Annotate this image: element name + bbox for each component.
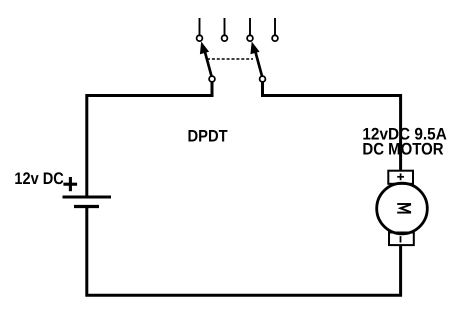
motor M1 top terminal plus mark <box>397 173 404 180</box>
switch S1 throw contact circle 4 <box>272 35 278 41</box>
switch S1 throw contact circle 3 <box>247 35 253 41</box>
switch S1 right arm <box>254 47 262 77</box>
battery B1 positive plate <box>63 196 112 199</box>
switch S1 gang dashed link <box>207 58 253 60</box>
svg-text:DPDT: DPDT <box>188 127 229 146</box>
switch S1 throw terminal stub 3 <box>249 18 251 35</box>
motor M1 top terminal box <box>388 171 413 184</box>
wire: right pole of switch to motor top <box>263 81 401 171</box>
motor M1 body circle <box>377 183 428 234</box>
motor M1 bottom terminal box <box>389 233 414 246</box>
switch S1 right arm arrowhead <box>250 42 259 55</box>
wire: battery bottom, bottom rail, up to motor bottom <box>87 207 401 296</box>
switch S1 throw terminal stub 1 <box>199 18 201 35</box>
battery plus sign <box>63 177 77 191</box>
switch S1 left arm <box>204 47 212 77</box>
motor M1 bottom terminal minus mark (rotated) <box>400 236 402 242</box>
switch S1 pole contact circle left <box>209 76 215 82</box>
switch S1 pole contact circle right <box>260 76 266 82</box>
switch S1 throw contact circle 1 <box>197 35 203 41</box>
svg-text:12v DC: 12v DC <box>14 169 63 188</box>
svg-text:DC MOTOR: DC MOTOR <box>362 139 443 158</box>
battery B1 negative plate <box>74 205 99 208</box>
wire: battery top to left pole of switch <box>87 81 212 197</box>
motor M1 rotated letter M <box>397 204 411 213</box>
switch S1 left arm arrowhead <box>200 42 209 55</box>
switch S1 throw terminal stub 2 <box>224 18 226 35</box>
switch S1 throw contact circle 2 <box>222 35 228 41</box>
switch S1 throw terminal stub 4 <box>274 18 276 35</box>
